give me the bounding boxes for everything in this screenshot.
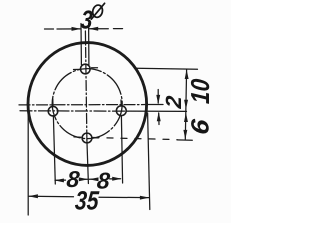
pitch circle (dash-dot bolt circle) <box>52 69 122 139</box>
outer circle (flange body, diameter 35) <box>28 43 147 166</box>
dimension 3-dia: left arrowhead <box>72 27 82 31</box>
dimension 6: lower arrowhead <box>183 130 187 140</box>
side-holes centerline solid right extension <box>128 110 187 112</box>
svg-text:6: 6 <box>185 117 214 135</box>
dimension 8-8: left extension line <box>53 117 55 185</box>
dimension 35: right arrowhead <box>140 196 150 200</box>
dimension 3-dia: right trailing dash <box>114 28 123 30</box>
vertical centerline extension to 8-8 dimension <box>87 140 89 184</box>
dimension 2: lower arrow line <box>158 113 160 125</box>
dimension 10: top extension line from hole <box>92 67 98 69</box>
hole right <box>116 106 126 116</box>
dimension 2: upper arrowhead (down) <box>156 95 160 105</box>
label phi symbol <box>91 3 104 19</box>
svg-text:35: 35 <box>74 186 100 216</box>
dimension 6: bottom extension solid end <box>177 139 192 141</box>
dimension 10/6: vertical dimension line <box>185 70 186 140</box>
dimension 8-8: left arrowhead <box>54 179 64 183</box>
dimension 2: lower arrowhead (up) <box>157 112 161 122</box>
dimension 8-8: seg4 arrowhead (right) <box>112 177 122 181</box>
top hole left centerline tick <box>74 68 81 70</box>
dimension 3-dia: extension line left <box>80 24 82 65</box>
dimension 35: right extension line <box>148 113 150 210</box>
side-holes centerline <box>20 110 128 112</box>
dimension 35: right line <box>99 196 149 198</box>
dimension 2: upper arrow line <box>157 90 159 104</box>
svg-text:2: 2 <box>161 94 186 110</box>
dimension 35: left arrowhead <box>28 194 38 198</box>
bottom hole left centerline tick <box>74 136 81 138</box>
dimension 35: left extension line <box>27 108 29 215</box>
dimension 6: upper arrowhead <box>184 113 188 123</box>
dimension 8-8: seg4 line <box>110 178 121 180</box>
bottom hole right centerline tick <box>93 137 99 139</box>
dimension 8-8: seg3 line <box>89 178 96 180</box>
hole left <box>48 106 58 116</box>
right hole upper centerline tick <box>120 100 122 106</box>
dimension 10: upper arrowhead <box>185 70 189 80</box>
dimension 3-dia: left arrow line <box>57 28 80 30</box>
dimension 3-dia: extension line right <box>88 24 90 65</box>
dimension 8-8: seg1 line <box>55 179 66 181</box>
hole bottom <box>82 133 92 143</box>
dimension 8-8: seg2 line <box>79 178 87 180</box>
svg-text:10: 10 <box>187 77 216 104</box>
dimension 35: left line <box>29 195 74 198</box>
dimension 6: bottom extension dashed from bottom hole <box>93 138 177 140</box>
dimension 10: top extension line outer part <box>136 68 198 69</box>
horizontal centerline <box>19 104 146 106</box>
dimension 8-8: right extension line <box>121 116 122 183</box>
dimension 10: lower arrowhead <box>184 100 188 110</box>
dimension 3-dia: left leader dash <box>45 28 54 30</box>
vertical centerline <box>85 31 87 140</box>
horizontal centerline solid right extension <box>146 104 163 106</box>
dimension 3-dia: right arrowhead <box>89 27 99 31</box>
dimension 8-8: seg2 arrowhead (right) <box>79 177 89 181</box>
left hole upper centerline tick <box>52 99 54 106</box>
dimension 8-8: seg3 arrowhead (left) <box>89 177 99 181</box>
dimension 3-dia: right arrow line <box>90 28 109 30</box>
hole top (3 dia) <box>81 64 91 74</box>
